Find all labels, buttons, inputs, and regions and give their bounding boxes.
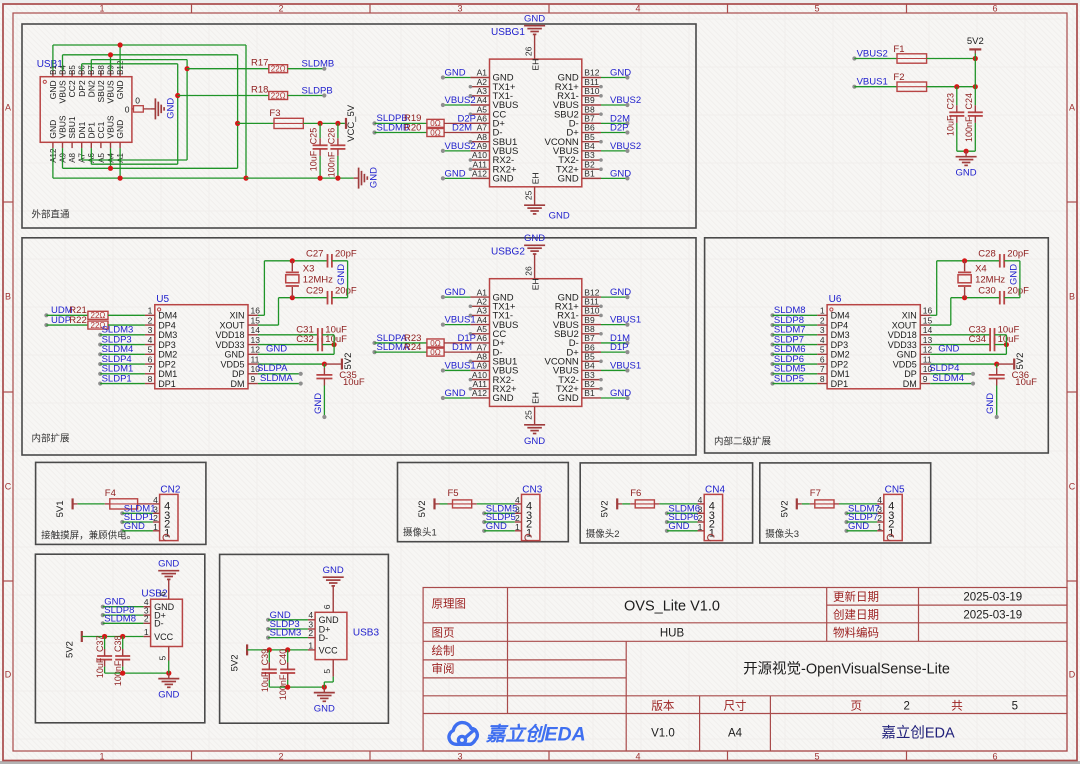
svg-text:XIN: XIN xyxy=(902,311,917,321)
svg-text:EH: EH xyxy=(531,392,541,404)
wire F3 to VCC_5V xyxy=(303,122,345,124)
svg-text:嘉立创EDA: 嘉立创EDA xyxy=(485,724,586,746)
wire/net VBUS2 to USBG1 A4 xyxy=(443,104,471,106)
ground rail GND symbol xyxy=(354,177,359,179)
svg-text:X4: X4 xyxy=(975,263,987,274)
USB3 pin 1 (VCC) xyxy=(308,649,315,651)
svg-text:SLDPB: SLDPB xyxy=(302,85,333,96)
net SLDPA from DP xyxy=(258,373,301,375)
svg-text:DM1: DM1 xyxy=(158,369,177,379)
title block table xyxy=(423,588,1067,752)
U5 pin 15 (XOUT) xyxy=(248,324,258,326)
svg-text:CC2: CC2 xyxy=(67,80,77,97)
net SLDP7 to U6 pin 4 xyxy=(770,342,774,346)
wire 5V2 to USB3 VCC xyxy=(247,649,308,651)
svg-text:26: 26 xyxy=(524,46,534,56)
svg-text:VDD18: VDD18 xyxy=(215,330,244,340)
svg-text:GND: GND xyxy=(225,350,246,360)
USB1 pin A6 (DP1) xyxy=(90,142,92,148)
USBG1 pin A11 (RX2+) xyxy=(470,168,489,170)
USB1 pin A5 (CC1) xyxy=(100,142,102,148)
USBG1 pin A3 (TX1-) xyxy=(470,95,489,97)
svg-text:GND: GND xyxy=(486,521,507,532)
net SLDM3 to USB3 pin 2 xyxy=(266,636,270,640)
svg-text:GND: GND xyxy=(445,68,466,79)
svg-text:1: 1 xyxy=(877,522,882,532)
wire R19 to A6 (D2P) xyxy=(444,122,470,124)
wire GND pin12 xyxy=(930,353,1006,355)
svg-text:A: A xyxy=(5,103,11,113)
svg-text:SLDM4: SLDM4 xyxy=(932,373,964,384)
svg-text:6: 6 xyxy=(322,604,332,609)
svg-text:DM4: DM4 xyxy=(831,311,850,321)
USBG2 pin B8 (SBU2) xyxy=(582,333,601,335)
svg-text:SBU1: SBU1 xyxy=(67,116,77,138)
svg-text:D-: D- xyxy=(319,633,329,643)
CN5 pin 4 xyxy=(877,503,884,505)
svg-text:13: 13 xyxy=(251,335,261,345)
net SLDM1 to CN2 pin 3 xyxy=(120,511,124,515)
svg-text:GND: GND xyxy=(165,98,176,119)
USBG2 pin B6 (D+) xyxy=(582,351,601,353)
net SLDMA from DM xyxy=(258,383,301,385)
svg-text:C40: C40 xyxy=(278,649,288,666)
U6 pin 11 (VDD5) xyxy=(920,363,930,365)
U6 pin 9 (DM) xyxy=(920,383,930,385)
svg-text:GND: GND xyxy=(610,287,631,298)
capacitor C28 20pF xyxy=(999,254,1001,267)
U5 pin 14 (VDD18) xyxy=(248,334,258,336)
svg-text:内部二级扩展: 内部二级扩展 xyxy=(714,436,772,448)
svg-text:外部直通: 外部直通 xyxy=(32,209,71,221)
CN5 pin 3 xyxy=(877,512,884,514)
svg-text:20pF: 20pF xyxy=(1007,249,1029,260)
svg-text:创建日期: 创建日期 xyxy=(833,607,879,621)
svg-text:图页: 图页 xyxy=(432,626,455,639)
USBG1 pin 25 EH bottom xyxy=(534,187,536,205)
svg-text:V1.0: V1.0 xyxy=(651,727,675,739)
wire F2 to node xyxy=(927,86,976,88)
USB1 pin B8 (SBU2) xyxy=(100,71,102,77)
wire/net D2M to USBG1 B7 xyxy=(601,122,627,124)
USB1 pin B5 (CC2) xyxy=(71,71,73,77)
svg-text:DP3: DP3 xyxy=(831,340,849,350)
svg-text:GND: GND xyxy=(323,565,344,576)
box 内部扩展 xyxy=(22,238,696,455)
svg-text:C26: C26 xyxy=(327,128,337,145)
svg-text:VBUS1: VBUS1 xyxy=(857,77,888,88)
resistor R17 22ohm xyxy=(187,68,269,70)
U5 pin 11 (VDD5) xyxy=(248,363,258,365)
power flag 5V2 topright xyxy=(969,48,981,50)
svg-text:14: 14 xyxy=(923,325,933,335)
CN4 pin 4 xyxy=(698,503,705,505)
USBG2 pin B9 (VBUS) xyxy=(582,324,601,326)
ground below USB3 xyxy=(323,687,325,693)
U6 pin 4 (DP3) xyxy=(817,344,827,346)
box CN5 (摄像头3) xyxy=(760,463,931,543)
svg-text:原理图: 原理图 xyxy=(432,598,467,611)
svg-text:GND: GND xyxy=(313,393,324,414)
net SLDM5 to CN3 pin 3 xyxy=(482,511,486,515)
net SLDP4 to U5 pin 6 xyxy=(98,362,102,366)
svg-text:VBUS: VBUS xyxy=(58,115,68,138)
svg-text:C38: C38 xyxy=(113,635,123,652)
svg-text:6: 6 xyxy=(158,591,168,596)
jlc eda logo xyxy=(449,723,477,745)
svg-text:GND: GND xyxy=(48,120,58,139)
net SLDM6 to U6 pin 5 xyxy=(770,352,774,356)
svg-text:DP1: DP1 xyxy=(831,379,849,389)
wire R20 to A7 (D2M) xyxy=(444,132,470,134)
net SLDP3 to USB3 pin 3 xyxy=(266,627,270,631)
svg-text:GND: GND xyxy=(445,168,466,179)
svg-text:C25: C25 xyxy=(309,128,319,145)
svg-text:1: 1 xyxy=(308,640,313,650)
svg-text:GND: GND xyxy=(48,80,58,99)
U6 pin 5 (DM2) xyxy=(817,353,827,355)
wire SLDMB to R20 xyxy=(375,132,427,134)
svg-text:2: 2 xyxy=(278,752,283,762)
wire R22 to pin2 xyxy=(108,324,145,326)
svg-text:DP2: DP2 xyxy=(77,80,87,97)
svg-text:1: 1 xyxy=(99,4,104,14)
CN2 pin1 marker xyxy=(163,534,169,540)
USB3 pin 6 to ground xyxy=(332,586,334,612)
net SLDM6 to CN4 pin 3 xyxy=(665,511,669,515)
U5 pin 4 (DP3) xyxy=(145,344,155,346)
svg-text:F6: F6 xyxy=(630,488,641,499)
USBG2 pin B3 (TX2-) xyxy=(582,379,601,381)
svg-text:DP2: DP2 xyxy=(158,359,176,369)
USBG2 pin A6 (D+) xyxy=(470,342,489,344)
wire ground rail box1 xyxy=(246,177,354,179)
svg-text:CN3: CN3 xyxy=(522,484,542,495)
wire GND pin12 xyxy=(258,353,334,355)
USBG2 pin B2 (TX2+) xyxy=(582,388,601,390)
net SLDPB port xyxy=(372,121,376,125)
svg-text:0: 0 xyxy=(125,104,130,114)
svg-text:GND: GND xyxy=(115,120,125,139)
capacitor C37 10uF xyxy=(97,655,112,657)
svg-text:C24: C24 xyxy=(964,93,974,110)
net SLDM4 from DM xyxy=(930,383,973,385)
svg-text:25: 25 xyxy=(524,410,534,420)
svg-text:12MHz: 12MHz xyxy=(303,274,333,285)
power flag 5V2 USB3 xyxy=(246,644,248,655)
svg-text:0Ω: 0Ω xyxy=(430,348,440,357)
svg-text:D2P: D2P xyxy=(610,123,628,134)
svg-text:D2M: D2M xyxy=(452,123,472,134)
wire 5V2 to USB2 VCC xyxy=(82,636,144,638)
svg-text:GND: GND xyxy=(124,521,145,532)
svg-text:4: 4 xyxy=(148,335,153,345)
svg-text:16: 16 xyxy=(251,306,261,316)
fuse F3 xyxy=(238,122,274,124)
U5 pin 3 (DM3) xyxy=(145,334,155,336)
wire F7 to CN5 pin4 xyxy=(834,503,839,505)
net SLDMA port mid xyxy=(372,350,376,354)
svg-text:VCC: VCC xyxy=(319,645,339,655)
svg-text:EH: EH xyxy=(531,172,541,184)
svg-text:5V2: 5V2 xyxy=(967,36,984,47)
wire/net D2P to USBG1 B6 xyxy=(601,132,627,134)
svg-text:VBUS: VBUS xyxy=(58,80,68,103)
wire/net VBUS1 to USBG2 B9 xyxy=(601,324,627,326)
svg-text:GND: GND xyxy=(266,344,287,355)
net SLDM7 to CN5 pin 3 xyxy=(844,511,848,515)
svg-text:A4: A4 xyxy=(728,727,743,739)
svg-text:R17: R17 xyxy=(251,58,268,69)
ground below USB2 xyxy=(168,673,170,679)
capacitor C27 20pF xyxy=(327,254,329,267)
net GND to USB2 pin 4 xyxy=(101,605,105,609)
svg-text:2: 2 xyxy=(144,614,149,624)
wire VBUS loop USB1 xyxy=(62,55,64,71)
USBG1 pin B6 (D+) xyxy=(582,132,601,134)
power flag 5V1 xyxy=(71,498,73,509)
svg-text:SLDP1: SLDP1 xyxy=(102,373,132,384)
svg-text:1: 1 xyxy=(820,306,825,316)
USBG1 pin B12 (GND) xyxy=(582,77,601,79)
U6 pin 13 (VDD33) xyxy=(920,344,930,346)
resistor 0 ohm at USB1 shield xyxy=(132,108,134,110)
svg-text:5V2: 5V2 xyxy=(230,654,241,671)
svg-text:CC1: CC1 xyxy=(96,121,106,138)
svg-text:2: 2 xyxy=(278,4,283,14)
svg-text:0Ω: 0Ω xyxy=(430,339,440,348)
svg-text:5: 5 xyxy=(322,669,332,674)
svg-text:GND: GND xyxy=(848,521,869,532)
svg-text:1: 1 xyxy=(888,527,894,539)
USBG2 pin A5 (CC) xyxy=(470,333,489,335)
wire DP loop USB1 xyxy=(81,64,83,71)
svg-text:DM2: DM2 xyxy=(158,350,177,360)
svg-text:尺寸: 尺寸 xyxy=(724,698,747,712)
U6 pin 16 (XIN) xyxy=(920,314,930,316)
svg-text:GND: GND xyxy=(668,521,689,532)
svg-text:C37: C37 xyxy=(95,635,105,652)
net SLDP6 to U6 pin 6 xyxy=(770,362,774,366)
svg-text:B5: B5 xyxy=(68,65,77,75)
USBG2 pin 26 EH top xyxy=(534,254,536,279)
svg-text:5V2: 5V2 xyxy=(64,641,75,658)
svg-text:VBUS1: VBUS1 xyxy=(610,360,641,371)
svg-text:HUB: HUB xyxy=(660,627,685,639)
svg-text:20pF: 20pF xyxy=(335,285,357,296)
svg-text:DM3: DM3 xyxy=(158,330,177,340)
svg-text:DN1: DN1 xyxy=(77,121,87,138)
U6 pin 15 (XOUT) xyxy=(920,324,930,326)
svg-text:10uF: 10uF xyxy=(343,377,365,388)
net SLDP1 to CN2 pin 2 xyxy=(120,520,124,524)
svg-text:5V2: 5V2 xyxy=(1015,353,1026,370)
USBG2 pin A3 (TX1-) xyxy=(470,314,489,316)
U5 pin 8 (DP1) xyxy=(145,383,155,385)
CN4 pin1 marker xyxy=(708,534,714,540)
USB1 pin B6 (DP2) xyxy=(81,71,83,77)
wire XIN to crystal X3 xyxy=(258,314,265,316)
CN3 pin1 marker xyxy=(525,534,531,540)
U5 pin 16 (XIN) xyxy=(248,314,258,316)
capacitor C36 10uF xyxy=(989,374,1005,376)
USBG2 pin B7 (D-) xyxy=(582,342,601,344)
svg-text:VBUS1: VBUS1 xyxy=(445,315,476,326)
svg-text:22Ω: 22Ω xyxy=(271,65,286,74)
capacitor C24 100nF xyxy=(968,111,983,113)
svg-text:VDD5: VDD5 xyxy=(893,359,917,369)
net UDM port xyxy=(44,313,48,317)
box CN3 (摄像头1) xyxy=(398,463,569,542)
wire VBUS1 to F2 xyxy=(854,86,897,88)
svg-text:5V2: 5V2 xyxy=(343,353,354,370)
wire/net GND to USBG1 B1 xyxy=(601,177,627,179)
USBG2 pin A10 (RX2-) xyxy=(470,379,489,381)
wire gnd rail xyxy=(105,672,169,674)
svg-text:绘制: 绘制 xyxy=(432,644,455,658)
svg-text:SLDMB: SLDMB xyxy=(302,59,335,70)
ic U6 xyxy=(827,305,920,389)
svg-text:1: 1 xyxy=(99,752,104,762)
svg-text:GND: GND xyxy=(558,174,579,185)
wire SLDPA to R23 xyxy=(375,342,427,344)
svg-text:共: 共 xyxy=(951,699,963,712)
svg-text:DP: DP xyxy=(232,369,245,379)
wire 5V2 to F6 xyxy=(617,503,622,505)
USB1 pin B1 (GND) xyxy=(52,71,54,77)
svg-text:20pF: 20pF xyxy=(335,249,357,260)
U5 pin 5 (DM2) xyxy=(145,353,155,355)
box USB2 xyxy=(35,554,204,723)
USB1 pin A4 (VBUS) xyxy=(110,142,112,148)
wire/net GND to USBG2 B12 xyxy=(601,296,627,298)
svg-text:VDD5: VDD5 xyxy=(220,359,244,369)
USB1 pin A12 (GND) xyxy=(52,142,54,148)
svg-text:6: 6 xyxy=(992,4,997,14)
ground at USBG1 bottom xyxy=(534,204,536,206)
net SLDM7 to U6 pin 3 xyxy=(770,333,774,337)
USBG2 pin B1 (GND) xyxy=(582,397,601,399)
svg-text:B: B xyxy=(5,292,11,302)
svg-text:GND: GND xyxy=(336,264,347,285)
capacitor C26 100nF xyxy=(330,144,345,146)
net SLDM5 to U6 pin 7 xyxy=(770,372,774,376)
svg-text:15: 15 xyxy=(923,315,933,325)
svg-text:DP4: DP4 xyxy=(831,320,849,330)
svg-text:DM4: DM4 xyxy=(158,311,177,321)
ground topright xyxy=(965,151,967,157)
svg-text:GND: GND xyxy=(314,704,335,715)
svg-text:C30: C30 xyxy=(978,285,995,296)
svg-text:XOUT: XOUT xyxy=(892,320,918,330)
svg-text:6: 6 xyxy=(992,752,997,762)
ic USB3 xyxy=(315,612,347,659)
capacitor C34 10uF xyxy=(930,344,990,346)
svg-text:10uF: 10uF xyxy=(1015,377,1037,388)
net SLDP5 to CN3 pin 2 xyxy=(482,520,486,524)
svg-text:CN5: CN5 xyxy=(885,484,905,495)
svg-text:10uF: 10uF xyxy=(95,657,105,678)
wire R23 to A6 (D1P) xyxy=(444,342,470,344)
CN2 pin 4 xyxy=(153,503,160,505)
svg-text:DP: DP xyxy=(904,369,917,379)
USB1 pin A1 (GND) xyxy=(119,142,121,148)
USBG1 pin A5 (CC) xyxy=(470,113,489,115)
wire/net VBUS2 to USBG1 B9 xyxy=(601,104,627,106)
svg-text:5V1: 5V1 xyxy=(55,500,66,517)
wire/net GND to USBG2 B1 xyxy=(601,397,627,399)
svg-text:8: 8 xyxy=(148,374,153,384)
svg-text:12: 12 xyxy=(251,345,261,355)
svg-text:GND: GND xyxy=(445,388,466,399)
svg-text:VBUS: VBUS xyxy=(106,115,116,138)
USBG1 pin B3 (TX2-) xyxy=(582,159,601,161)
svg-text:GND: GND xyxy=(369,167,380,188)
USBG1 pin A8 (SBU1) xyxy=(470,141,489,143)
wire/net D1P to USBG2 B6 xyxy=(601,351,627,353)
U6 pin 10 (DP) xyxy=(920,373,930,375)
svg-text:DM1: DM1 xyxy=(831,369,850,379)
wire/net GND to USBG2 A12 xyxy=(443,397,471,399)
svg-text:D1P: D1P xyxy=(610,342,628,353)
crystal X3 12MHz xyxy=(291,261,293,272)
svg-text:15: 15 xyxy=(251,315,261,325)
wire vdd caps to gnd xyxy=(1004,342,1009,347)
USB1 pin B12 (GND) xyxy=(119,71,121,77)
wire/net GND to USBG1 A1 xyxy=(443,77,471,79)
svg-text:5: 5 xyxy=(148,345,153,355)
U6 pin 3 (DM3) xyxy=(817,334,827,336)
svg-text:D: D xyxy=(5,670,12,680)
wire R24 to A7 (D1M) xyxy=(444,351,470,353)
net SLDM8 to U6 pin 1 xyxy=(770,313,774,317)
wire VDD5 to 5V2 xyxy=(258,363,325,365)
svg-text:10uF: 10uF xyxy=(260,671,270,692)
capacitor C33 10uF xyxy=(930,334,990,336)
connector CN3 xyxy=(522,494,540,540)
ic USBG2 xyxy=(490,279,582,407)
power flag 5V2 USB2 xyxy=(81,631,83,642)
net SLDM3 to U5 pin 3 xyxy=(98,333,102,337)
wire XOUT to crystal X3 xyxy=(258,324,279,326)
U5 pin 13 (VDD33) xyxy=(248,344,258,346)
USBG2 pin A9 (VBUS) xyxy=(470,369,489,371)
svg-text:C34: C34 xyxy=(969,334,986,345)
CN4 pin 1 xyxy=(698,530,705,532)
CN4 pin 3 xyxy=(698,512,705,514)
svg-text:U6: U6 xyxy=(829,294,842,305)
svg-text:3: 3 xyxy=(148,325,153,335)
USBG1 pin A12 (GND) xyxy=(470,177,489,179)
svg-text:VDD33: VDD33 xyxy=(215,340,244,350)
svg-text:GND: GND xyxy=(610,388,631,399)
svg-text:4: 4 xyxy=(635,4,640,14)
USB1 pin A7 (DN1) xyxy=(81,142,83,148)
svg-text:版本: 版本 xyxy=(651,698,674,712)
svg-text:2: 2 xyxy=(903,700,909,712)
svg-text:26: 26 xyxy=(524,266,534,276)
svg-text:12MHz: 12MHz xyxy=(975,274,1005,285)
svg-text:5V2: 5V2 xyxy=(600,500,611,517)
USBG2 pin A7 (D-) xyxy=(470,351,489,353)
svg-text:1: 1 xyxy=(164,527,170,539)
svg-text:C23: C23 xyxy=(945,93,955,110)
svg-text:内部扩展: 内部扩展 xyxy=(32,433,71,445)
svg-text:A8: A8 xyxy=(68,152,77,162)
net SLDP8 to USB2 pin 3 xyxy=(101,613,105,617)
svg-text:B8: B8 xyxy=(97,65,106,75)
svg-text:XOUT: XOUT xyxy=(219,320,245,330)
